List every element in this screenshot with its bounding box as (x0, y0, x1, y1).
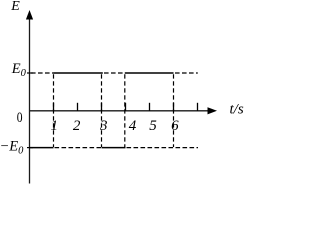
svg-text:6: 6 (171, 118, 179, 134)
svg-text:3: 3 (99, 118, 108, 134)
svg-text:t/s: t/s (230, 102, 244, 118)
svg-text:2: 2 (73, 118, 81, 134)
svg-text:1: 1 (50, 118, 58, 134)
svg-text:5: 5 (149, 118, 157, 134)
svg-text:E: E (10, 0, 20, 14)
svg-text:4: 4 (129, 118, 137, 134)
svg-text:0: 0 (17, 110, 23, 126)
